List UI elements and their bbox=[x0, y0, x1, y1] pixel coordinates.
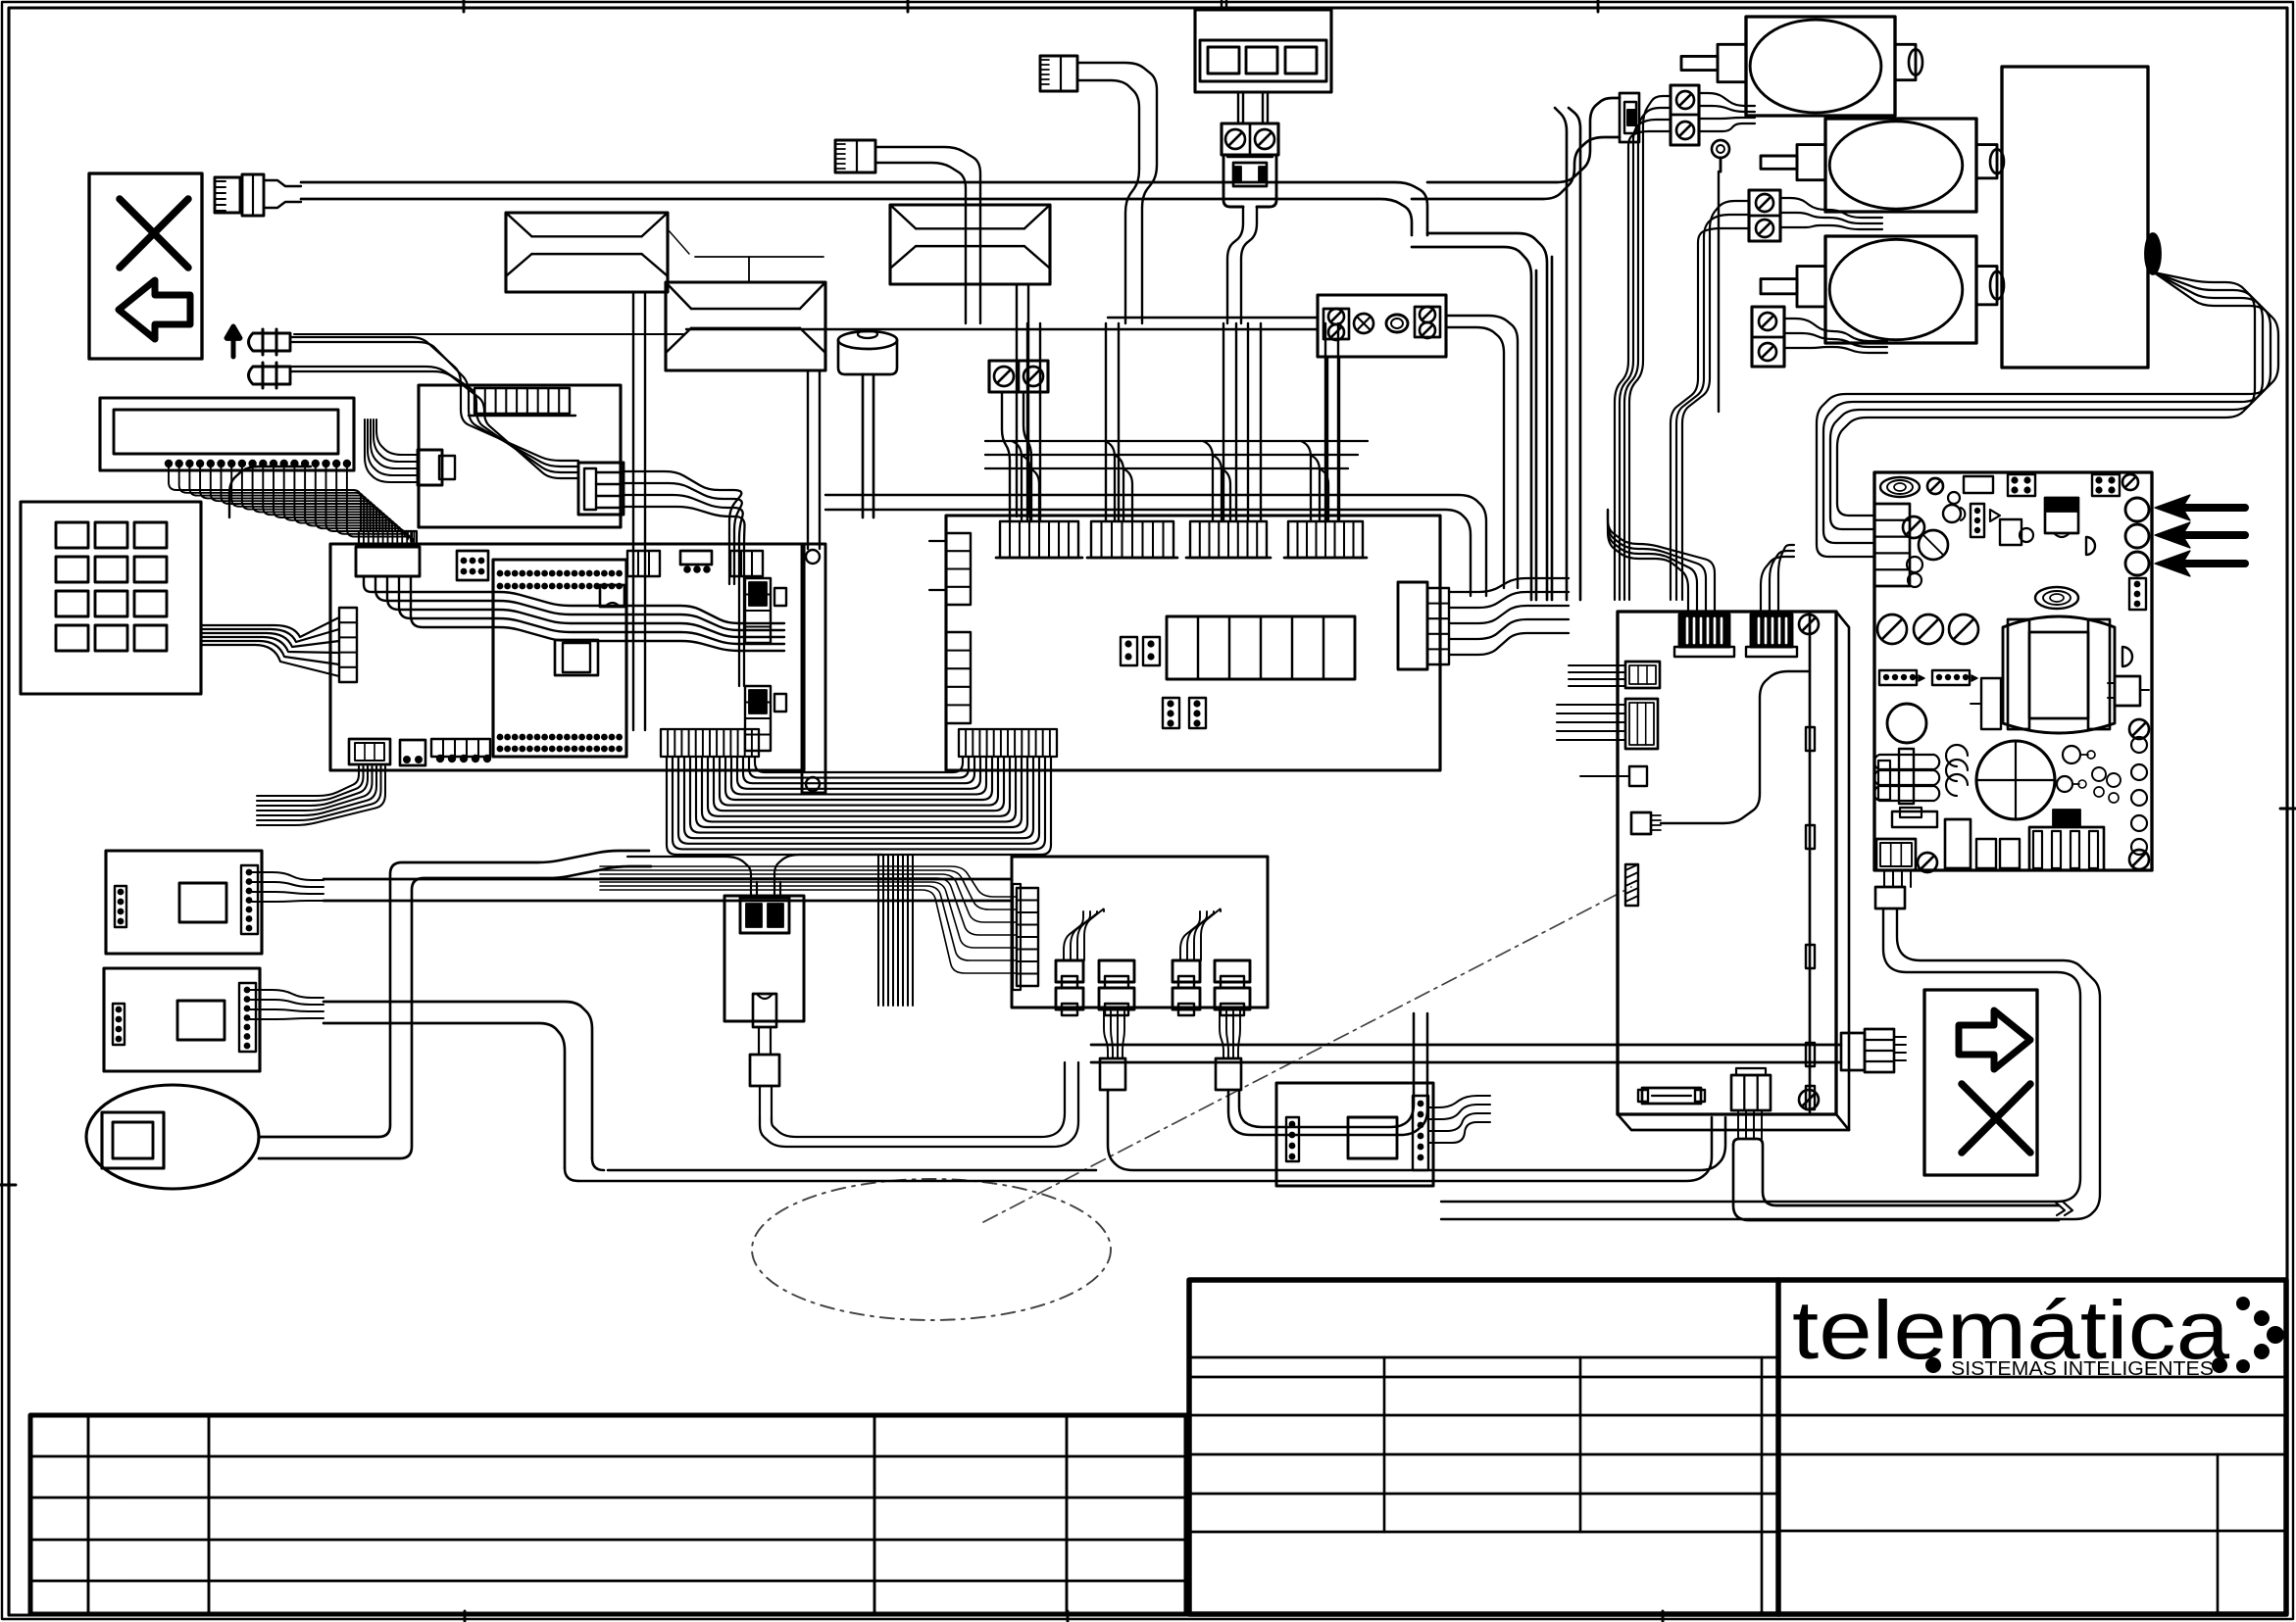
frame tick bottom 2 bbox=[1067, 1611, 1070, 1622]
assembly cable 1 bbox=[565, 1090, 1725, 1181]
LCD module bbox=[100, 398, 354, 470]
chassis screw top bbox=[1799, 614, 1819, 634]
chassis bottom cable bbox=[1733, 1110, 2072, 1220]
ribbon drop bundle bbox=[878, 856, 913, 1006]
relay module 4 bbox=[1215, 960, 1250, 1015]
interface cable bbox=[624, 471, 745, 686]
solenoid valve 1 bbox=[1681, 17, 1922, 116]
LCD wire fan bbox=[169, 467, 414, 545]
mains inlet connector bbox=[1412, 93, 1639, 199]
jumper JD bbox=[1189, 698, 1206, 728]
center board top connector 4 bbox=[1284, 521, 1367, 558]
chassis clip small bbox=[1580, 766, 1647, 786]
relay module bottom wires bbox=[1104, 1009, 1240, 1058]
keypad connector bbox=[339, 608, 357, 682]
relay module top wires bbox=[1064, 909, 1221, 960]
chassis left conn 2 bbox=[1557, 699, 1658, 749]
control box bbox=[2002, 67, 2148, 368]
feeder pair right bbox=[1412, 233, 1552, 600]
arduino module bbox=[493, 560, 626, 757]
ribbon connector left bbox=[661, 729, 759, 757]
TB2 wires bbox=[1002, 392, 1031, 521]
symbol box bottom-right bbox=[1924, 990, 2037, 1175]
control box cable bbox=[1817, 272, 2278, 557]
chassis clips bbox=[1806, 727, 1815, 1109]
bus wire left pair bbox=[229, 467, 311, 517]
main board bottom conn 1 bbox=[349, 739, 390, 764]
detail leader bbox=[983, 887, 1631, 1222]
leader line bbox=[294, 333, 683, 335]
main board bottom conn 3 bbox=[431, 739, 491, 762]
chassis screw bottom bbox=[1799, 1090, 1819, 1109]
assembly conn bottom 2 bbox=[1216, 1058, 1241, 1090]
solenoid valve 2 bbox=[1761, 119, 2004, 212]
detail ellipse bbox=[752, 1179, 1111, 1320]
LCD solder pads bbox=[165, 460, 351, 467]
buzzer bbox=[838, 330, 897, 517]
jumper JB bbox=[1143, 637, 1160, 665]
horn1 wires down bbox=[633, 292, 645, 730]
display unit bbox=[1195, 0, 1331, 92]
feeder pair 2 bbox=[1555, 108, 1580, 600]
chassis connector K1 bbox=[1674, 614, 1734, 657]
keypad bbox=[21, 502, 201, 694]
strike conn top bbox=[627, 855, 882, 933]
TB-A wires bbox=[1699, 93, 1755, 131]
reader2 wires bbox=[247, 990, 324, 1019]
P2 wires bbox=[875, 147, 980, 323]
connector P3 bbox=[1040, 56, 1077, 91]
PSU output cable bbox=[1441, 870, 2100, 1219]
relay array bbox=[1167, 616, 1355, 679]
bus wires middle bbox=[825, 495, 1486, 596]
center top wires 1 bbox=[1027, 323, 1040, 521]
symbol X bottom-right bbox=[1962, 1084, 2030, 1153]
relay assembly board bbox=[1012, 857, 1268, 1008]
telematica logo bbox=[1792, 1284, 2284, 1380]
interface left connector bbox=[365, 419, 455, 485]
P3 wires bbox=[1077, 63, 1157, 323]
frame tick bottom 1 bbox=[464, 1611, 467, 1622]
center board left conn 2 bbox=[946, 632, 971, 723]
terminal block TB2 bbox=[989, 361, 1048, 392]
center board top connector 3 bbox=[1186, 521, 1271, 558]
horn2 wires down bbox=[808, 370, 820, 549]
board bottom fan bbox=[257, 766, 385, 825]
center top wires 2 bbox=[1106, 323, 1119, 521]
key fob bbox=[86, 1085, 259, 1189]
connector P1 top-left bbox=[215, 174, 301, 216]
terminal block TB1 bbox=[1222, 123, 1278, 155]
chassis bottom connector bbox=[1731, 1068, 1771, 1110]
arduino bottom pads bbox=[497, 734, 623, 753]
interface board bbox=[419, 385, 621, 527]
solenoid valve 3 bbox=[1761, 236, 2004, 343]
terminal block TB-B bbox=[1749, 190, 1780, 241]
horn 3 bbox=[890, 205, 1050, 284]
jumper JC bbox=[1163, 698, 1179, 728]
reader1 cable bbox=[324, 879, 1012, 901]
junction wires left bbox=[686, 318, 1318, 329]
chassis left conn 1 bbox=[1569, 662, 1660, 688]
solenoid supply bundle bbox=[1615, 96, 1749, 600]
center top wires 3 bbox=[1223, 323, 1236, 521]
chassis plate bbox=[1618, 612, 1849, 1130]
center board right wires bbox=[1449, 578, 1569, 655]
main board conn A bbox=[627, 551, 660, 576]
connector P2 bbox=[835, 140, 875, 172]
aux pcb bbox=[1276, 1083, 1433, 1186]
sensor S1 bbox=[1631, 671, 1810, 834]
grommet bbox=[2145, 233, 2161, 274]
ribbon connector right bbox=[959, 729, 1057, 757]
revision table bbox=[30, 1415, 1186, 1614]
symbol arrow-left bbox=[119, 280, 190, 339]
fuse F2 bbox=[1638, 1088, 1705, 1104]
symbol arrow-right bbox=[1959, 1010, 2030, 1069]
frame tick top 3 bbox=[1597, 0, 1600, 12]
junction wires bottom bbox=[1327, 357, 1339, 519]
frame tick top 2 bbox=[907, 0, 910, 12]
center board right connector bbox=[1398, 582, 1449, 669]
aux pcb wires bbox=[1428, 1096, 1490, 1143]
frame tick bottom 3 bbox=[1662, 1611, 1665, 1622]
symbol box top-left bbox=[89, 173, 202, 359]
assembly fan wires bbox=[600, 866, 1017, 973]
LCD cable bbox=[364, 576, 784, 651]
interface header bbox=[469, 388, 575, 416]
arduino top pads bbox=[497, 570, 623, 590]
relay module 2 bbox=[1099, 960, 1134, 1015]
main board conn B bbox=[680, 551, 712, 573]
junction box bbox=[1318, 295, 1446, 357]
assembly conn bottom 1 bbox=[1100, 1058, 1125, 1090]
hatch mark bbox=[1625, 864, 1638, 906]
driver strip board bbox=[802, 544, 825, 793]
assembly cable 2 bbox=[1228, 1013, 1427, 1135]
card reader board 1 bbox=[106, 851, 262, 954]
TB-C wires bbox=[1784, 319, 1887, 353]
main board conn C bbox=[730, 551, 763, 576]
strike conn bottom bbox=[753, 994, 776, 1055]
wire pair P1 to right bbox=[301, 182, 1427, 235]
horn 2 bbox=[666, 282, 825, 370]
terminal block TB-C bbox=[1752, 307, 1784, 367]
reader2 cable bbox=[324, 1002, 592, 1168]
frame tick right bbox=[2280, 808, 2296, 811]
LED 2 bbox=[249, 363, 291, 388]
LCD cable connector bbox=[356, 531, 420, 576]
main board header block bbox=[457, 551, 488, 580]
horn3 wires down bbox=[1017, 284, 1028, 516]
main board bbox=[330, 544, 804, 770]
relay module 3 bbox=[1173, 960, 1200, 1015]
display wires bbox=[1238, 92, 1268, 123]
title block grid bbox=[1189, 1280, 2286, 1614]
terminal block TB-A bbox=[1671, 85, 1699, 145]
svg-text:SISTEMAS INTELIGENTES: SISTEMAS INTELIGENTES bbox=[1951, 1358, 2214, 1380]
center board left conn 1 bbox=[929, 533, 971, 605]
keypad ribbon cable bbox=[201, 617, 339, 676]
card reader board 2 bbox=[104, 968, 260, 1071]
frame tick top 1 bbox=[463, 0, 466, 12]
arduino mcu bbox=[555, 640, 598, 675]
frame tick left bbox=[0, 1184, 16, 1187]
junction wires right bbox=[1446, 316, 1518, 588]
center top wires 5 bbox=[1248, 323, 1261, 521]
center board bbox=[946, 516, 1440, 770]
relay module 1 bbox=[1056, 960, 1083, 1015]
interface connector J2 bbox=[578, 463, 624, 515]
LED wires bbox=[290, 337, 578, 478]
leader to horn2 bbox=[668, 229, 824, 282]
reader1 wires bbox=[249, 872, 324, 902]
strike cable bbox=[760, 1062, 1078, 1147]
strike board bbox=[724, 896, 804, 1021]
center board top connector 2 bbox=[1087, 521, 1177, 558]
symbol X top-left bbox=[120, 199, 188, 268]
assembly connector bbox=[1013, 884, 1038, 990]
main board bottom conn 2 bbox=[400, 740, 425, 765]
driver conn lower bbox=[745, 686, 786, 751]
jumper JA bbox=[1121, 637, 1137, 665]
TB-B wires bbox=[1780, 198, 1882, 229]
fob cable bbox=[259, 851, 651, 1158]
PSU board bbox=[1874, 472, 2152, 870]
center board top connector 1 bbox=[996, 521, 1082, 558]
cable to P9 bbox=[1091, 1045, 1841, 1062]
PSU components bbox=[1874, 578, 2149, 872]
fuse F1 bbox=[1223, 155, 1276, 207]
driver conn upper bbox=[745, 578, 786, 643]
arduino aux bbox=[600, 585, 624, 607]
fuse wires down bbox=[1227, 207, 1257, 323]
strike block bbox=[750, 1055, 779, 1117]
chassis connector K2 bbox=[1746, 614, 1797, 657]
chassis connector wires bbox=[1608, 510, 1794, 614]
center feeder bus bbox=[985, 441, 1368, 521]
center top wires 4 bbox=[1325, 323, 1338, 521]
LED 1 bbox=[249, 329, 291, 355]
ring terminal bbox=[1712, 140, 1729, 412]
up arrow bbox=[226, 326, 240, 357]
connector P9 bbox=[1841, 1029, 1906, 1072]
input arrows bbox=[2155, 495, 2245, 576]
horn 1 bbox=[506, 213, 668, 292]
ribbon cable bbox=[667, 757, 1051, 855]
